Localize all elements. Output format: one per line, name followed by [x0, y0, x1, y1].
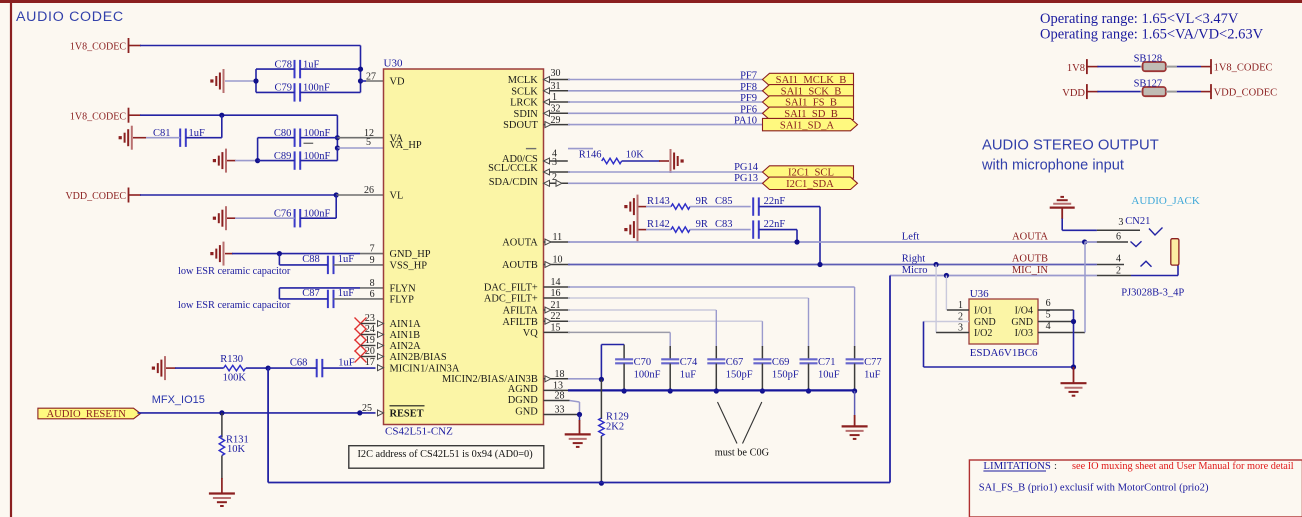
svg-text:PF9: PF9 — [740, 93, 757, 104]
power symbol AGND (C88) — [210, 242, 223, 266]
svg-text:26: 26 — [364, 185, 374, 196]
label Micro — [902, 265, 928, 276]
net flag AUDIO_RESETN — [38, 408, 141, 420]
svg-text:SCL/CCLK: SCL/CCLK — [488, 163, 538, 174]
svg-text:VQ: VQ — [523, 328, 539, 339]
junction Micro-U36 — [944, 273, 949, 278]
svg-text:C87: C87 — [302, 288, 320, 299]
label Right — [902, 253, 925, 264]
junction AOUTA-CN21 — [1082, 239, 1087, 244]
capacitor C79 — [256, 83, 361, 102]
refdes U36 — [970, 288, 989, 300]
svg-text:I/O2: I/O2 — [974, 328, 992, 339]
wire Micro — [890, 276, 1097, 483]
U36 pin6 stub — [1038, 298, 1074, 310]
connector CN21 pin4 — [1097, 254, 1152, 267]
junction C81 top — [219, 113, 224, 118]
svg-text:Right: Right — [902, 253, 925, 264]
svg-text:25: 25 — [362, 403, 372, 414]
wire AD0/CS pin4 — [544, 158, 568, 164]
svg-text:17: 17 — [365, 357, 375, 368]
svg-text:1V8: 1V8 — [1067, 63, 1085, 74]
capacitor C71 — [800, 298, 840, 391]
net flag SAI1_FS_B — [763, 96, 854, 109]
wire AD0 overbar stub — [568, 148, 593, 150]
junction RESET pin — [357, 410, 362, 415]
svg-text:Left: Left — [902, 231, 920, 242]
jack barrel CN21 — [1171, 239, 1179, 265]
junction C68 left — [266, 366, 271, 371]
svg-text:I/O4: I/O4 — [1015, 306, 1033, 317]
svg-text:1V8_CODEC: 1V8_CODEC — [70, 111, 126, 122]
wire AFILTA pin21 — [544, 307, 717, 313]
svg-text:3: 3 — [552, 157, 557, 168]
svg-text:SAI_FS_B (prio1) exclusif with: SAI_FS_B (prio1) exclusif with MotorCont… — [979, 483, 1209, 494]
junction VD pin27 — [358, 78, 363, 83]
svg-text:LRCK: LRCK — [510, 98, 538, 109]
power port 1V8_CODEC (VA) — [70, 108, 129, 123]
U36 pin4 stub — [1038, 321, 1085, 332]
wire U36 pin1 to Micro — [945, 276, 947, 311]
wire MICIN2/BIAS pin18 — [544, 376, 602, 382]
title AUDIO CODEC — [16, 9, 124, 25]
U30 left pin names — [390, 77, 460, 420]
no-connect X AIN1B — [355, 329, 376, 341]
svg-text:6: 6 — [1116, 231, 1121, 242]
junction DGND/GND — [577, 412, 582, 417]
note must be C0G — [715, 448, 770, 459]
svg-text:1V8_CODEC: 1V8_CODEC — [70, 42, 126, 53]
power port 1V8_CODEC (top) — [70, 38, 129, 53]
connector CN21 pin6 — [1085, 231, 1142, 246]
svg-text:PG13: PG13 — [734, 173, 758, 184]
svg-text:10K: 10K — [626, 149, 645, 160]
no-connect X AIN2B — [355, 351, 376, 363]
wire ADC_FILT+ pin16 — [544, 297, 809, 299]
svg-text:ESDA6V1BC6: ESDA6V1BC6 — [970, 347, 1038, 359]
svg-text:AIN2A: AIN2A — [390, 341, 422, 352]
label PG14 — [734, 162, 759, 173]
junction AOUTB-U36 — [934, 262, 939, 267]
svg-text:AIN1A: AIN1A — [390, 319, 422, 330]
U30 right pin names — [442, 75, 538, 417]
note low ESR 2 — [178, 300, 291, 311]
wire AOUTB — [544, 262, 1097, 268]
junction C69 on AGND bus — [760, 388, 765, 393]
label PF8 — [740, 82, 757, 93]
power symbol AGND (C76) — [213, 206, 226, 230]
capacitor C89 — [258, 148, 338, 170]
svg-text:22nF: 22nF — [764, 219, 786, 230]
power symbol AGND (C89) — [213, 149, 226, 173]
svg-text:20: 20 — [365, 346, 375, 357]
svg-text:PF8: PF8 — [740, 82, 757, 93]
svg-text:I2C1_SDA: I2C1_SDA — [786, 179, 834, 190]
U36 pin2 stub — [924, 311, 970, 322]
resistor R146 — [579, 149, 669, 163]
junction C85-AOUTB — [817, 262, 822, 267]
svg-text:2: 2 — [1116, 265, 1121, 276]
capacitor C80 — [258, 128, 338, 147]
net flag SAI1_SD_A — [763, 118, 858, 131]
svg-text:AFILTA: AFILTA — [503, 306, 539, 317]
svg-text:I/O1: I/O1 — [974, 306, 992, 317]
svg-text:PA10: PA10 — [734, 116, 757, 127]
capacitor C69 — [753, 321, 799, 391]
svg-text:4: 4 — [1046, 321, 1051, 332]
svg-text:VA_HP: VA_HP — [390, 140, 422, 151]
junction U36 pin5/6 — [1071, 319, 1076, 324]
esd diode U36 body — [969, 299, 1038, 344]
svg-text:VDD_CODEC: VDD_CODEC — [65, 191, 126, 202]
svg-text:6: 6 — [370, 289, 375, 300]
svg-text:24: 24 — [365, 324, 375, 335]
svg-text:3: 3 — [1118, 217, 1123, 228]
ground (U30 DGND/GND) — [565, 415, 591, 447]
svg-text:CN21: CN21 — [1125, 216, 1150, 227]
U36 pin1 stub — [947, 300, 969, 311]
svg-text:GND: GND — [1011, 317, 1033, 328]
svg-text:DGND: DGND — [508, 395, 539, 406]
svg-text:R142: R142 — [647, 219, 670, 230]
svg-text:with microphone input: with microphone input — [981, 158, 1124, 174]
junction C67 on AGND bus — [714, 388, 719, 393]
wire 1V8_CODEC to U30 VD — [129, 46, 361, 93]
svg-text:AUDIO_JACK: AUDIO_JACK — [1131, 195, 1200, 207]
svg-text:Operating range: 1.65<VL<3.47V: Operating range: 1.65<VL<3.47V — [1040, 11, 1239, 27]
svg-text:VSS_HP: VSS_HP — [390, 261, 428, 272]
net flag I2C1_SCL — [763, 166, 854, 179]
svg-text:R130: R130 — [220, 354, 243, 365]
svg-text:LIMITATIONS: LIMITATIONS — [983, 460, 1051, 472]
pin arrow AIN2B — [378, 354, 384, 360]
capacitor C74 — [661, 332, 698, 391]
wire SDOUT to SAI1_SD_A — [544, 122, 763, 128]
svg-text:SB128: SB128 — [1134, 53, 1163, 64]
svg-text:100nF: 100nF — [634, 369, 661, 380]
svg-text:SB127: SB127 — [1134, 78, 1163, 89]
ground (R131) — [209, 494, 235, 507]
U36 pin5 stub — [1038, 310, 1074, 322]
wire VL stub — [336, 194, 383, 196]
U36 pin names — [974, 306, 1033, 340]
svg-text:19: 19 — [365, 335, 375, 346]
junction C78/C79 left — [253, 78, 258, 83]
svg-text:GND: GND — [515, 406, 538, 417]
connector CN21 pin3 — [1097, 228, 1163, 236]
value ESDA6V1BC6 — [970, 347, 1038, 359]
label PF7 — [740, 71, 757, 82]
svg-text:AOUTA: AOUTA — [1012, 231, 1048, 242]
junction MICBIAS — [599, 377, 604, 382]
solder bridge SB128 — [1067, 53, 1273, 74]
ground (jack sleeve) — [1050, 197, 1097, 230]
junction R129 on MIC rail — [599, 481, 604, 486]
note must be C0G lines — [718, 402, 762, 444]
label PA10 — [734, 116, 757, 127]
pin arrow AIN1A — [378, 321, 384, 327]
svg-text:5: 5 — [366, 137, 371, 148]
wire power to C89 — [227, 160, 258, 162]
svg-text:9: 9 — [370, 255, 375, 266]
value CS42L51-CNZ — [385, 426, 453, 438]
note low ESR 1 — [178, 266, 291, 277]
svg-text:AUDIO STEREO OUTPUT: AUDIO STEREO OUTPUT — [982, 138, 1159, 154]
svg-text:SDA/CDIN: SDA/CDIN — [489, 177, 539, 188]
svg-text:VDD_CODEC: VDD_CODEC — [1214, 87, 1278, 98]
svg-text:PJ3028B-3_4P: PJ3028B-3_4P — [1121, 288, 1184, 299]
subtitle with microphone input — [981, 158, 1124, 174]
capacitor C76 — [227, 195, 336, 227]
net flag SAI1_SD_B — [763, 107, 854, 120]
svg-text:1uF: 1uF — [338, 288, 355, 299]
junction VA_HP pin5 — [335, 145, 340, 150]
label MIC_IN — [1012, 265, 1049, 276]
wire SCLK to SAI1_SCK_B — [544, 88, 763, 94]
svg-text:C74: C74 — [680, 357, 698, 368]
resistor R131 — [219, 413, 249, 493]
svg-text:5: 5 — [1046, 310, 1051, 321]
svg-text:SDIN: SDIN — [514, 109, 539, 120]
svg-text:AOUTB: AOUTB — [1012, 253, 1048, 264]
wire AFILTB pin22 — [544, 318, 763, 324]
op-amp U30 body — [384, 69, 544, 425]
svg-text:C83: C83 — [715, 219, 733, 230]
svg-text:C71: C71 — [818, 357, 836, 368]
no-connect X AIN1A — [355, 318, 376, 330]
svg-text:100K: 100K — [223, 373, 247, 384]
label PF9 — [740, 93, 757, 104]
wire power to C78/C79 junction — [225, 69, 256, 92]
svg-text:C85: C85 — [715, 196, 733, 207]
label AOUTA — [1012, 231, 1048, 242]
pin arrow RESET — [378, 410, 384, 416]
capacitor C87 — [279, 288, 383, 308]
power port VDD_CODEC — [65, 188, 128, 203]
wire GND_HP — [225, 253, 384, 255]
svg-text:22nF: 22nF — [764, 196, 786, 207]
power symbol (R146) — [671, 149, 684, 173]
svg-text:7: 7 — [370, 244, 375, 255]
wire SDIN to SAI1_SD_B — [544, 110, 763, 116]
U30 left pin numbers — [362, 72, 376, 414]
junction VA pin12 — [335, 135, 340, 140]
svg-text:10K: 10K — [227, 444, 246, 455]
wire C70 hook to MICBIAS — [601, 345, 624, 380]
svg-text:GND: GND — [974, 317, 996, 328]
svg-text:6: 6 — [1046, 298, 1051, 309]
junction C77 on AGND bus — [852, 388, 857, 393]
svg-text:C69: C69 — [772, 357, 790, 368]
note I2C address box — [349, 446, 544, 469]
svg-text:C70: C70 — [634, 357, 652, 368]
resistor R143 — [639, 196, 751, 209]
note LIMITATIONS — [983, 460, 1293, 472]
svg-text:low ESR ceramic capacitor: low ESR ceramic capacitor — [178, 266, 291, 277]
junction VL pin26 — [334, 192, 339, 197]
capacitor C70 — [615, 345, 661, 392]
svg-text:VL: VL — [390, 191, 404, 202]
power symbol (R130) — [152, 356, 165, 380]
junction C74 on AGND bus — [668, 388, 673, 393]
svg-text:4: 4 — [1116, 254, 1121, 265]
capacitor C67 — [707, 310, 753, 391]
wire GND pin33 — [544, 414, 580, 416]
connector CN21 pin2 — [1097, 265, 1178, 276]
power symbol (R143) — [624, 195, 637, 219]
svg-text:30: 30 — [551, 68, 561, 79]
svg-text:RESET: RESET — [390, 409, 424, 420]
wire FLYN — [279, 287, 383, 289]
svg-text:9R: 9R — [696, 196, 708, 207]
svg-text:1uF: 1uF — [338, 357, 355, 368]
svg-text:SCLK: SCLK — [511, 86, 538, 97]
svg-text:MFX_IO15: MFX_IO15 — [152, 394, 205, 406]
svg-text:C68: C68 — [290, 357, 308, 368]
wire DAC_FILT+ pin14 — [544, 286, 855, 288]
svg-text:VD: VD — [390, 77, 406, 88]
svg-text:PF7: PF7 — [740, 71, 757, 82]
wire DGND pin28 — [544, 401, 580, 415]
wire AUDIO_RESETN — [138, 412, 376, 414]
capacitor C83 — [715, 219, 797, 242]
svg-text:Micro: Micro — [902, 265, 928, 276]
svg-text:2K2: 2K2 — [606, 422, 624, 433]
svg-text:1uF: 1uF — [680, 369, 697, 380]
svg-text:AIN1B: AIN1B — [390, 330, 421, 341]
svg-text:must be C0G: must be C0G — [715, 448, 770, 459]
capacitor C85 — [715, 196, 820, 264]
ground (AGND bus) — [842, 391, 868, 439]
wire VA stub — [337, 137, 383, 139]
pin arrow AIN1B — [378, 332, 384, 338]
svg-text:1V8_CODEC: 1V8_CODEC — [1214, 62, 1273, 73]
svg-text:C77: C77 — [864, 357, 882, 368]
wire 1V8_CODEC VA rail — [129, 115, 338, 148]
svg-text:I2C address of CS42L51 is 0x94: I2C address of CS42L51 is 0x94 (AD0=0) — [358, 449, 533, 460]
net flag SAI1_MCLK_B — [763, 73, 854, 86]
wire U36 pins5/6 down — [1073, 310, 1075, 367]
note operating range VL — [1040, 11, 1239, 27]
svg-text:10uF: 10uF — [818, 369, 840, 380]
capacitor C68 — [268, 357, 375, 377]
wire MIC rail — [268, 482, 890, 484]
junction C78 right — [358, 67, 363, 72]
wire VQ pin15 — [544, 331, 671, 333]
wire MCLK to SAI1_MCLK_B — [544, 77, 763, 83]
wire AOUTA — [544, 239, 1097, 245]
U30 right pin numbers — [551, 68, 565, 416]
svg-text:VDD: VDD — [1062, 88, 1085, 99]
svg-text:I/O3: I/O3 — [1015, 328, 1033, 339]
note LIMITATIONS box — [969, 460, 1302, 517]
junction C83-AOUTA — [794, 239, 799, 244]
ground (U36) — [1061, 367, 1087, 396]
wire VD stub — [361, 80, 384, 82]
svg-text:MCLK: MCLK — [508, 75, 539, 86]
svg-text:150pF: 150pF — [726, 369, 753, 380]
svg-text:9R: 9R — [696, 219, 708, 230]
svg-text:U36: U36 — [970, 288, 989, 300]
wire U36 GND run — [924, 322, 1074, 368]
refdes U30 — [384, 58, 403, 70]
svg-text:C67: C67 — [726, 357, 744, 368]
svg-text:low ESR ceramic capacitor: low ESR ceramic capacitor — [178, 300, 291, 311]
svg-text:23: 23 — [365, 313, 375, 324]
wire U36 pin4 to AOUTA — [1084, 242, 1086, 333]
value PJ3028B-3_4P — [1121, 288, 1184, 299]
junction U36 gnd — [1071, 364, 1076, 369]
svg-text:1uF: 1uF — [338, 254, 355, 265]
capacitor C78 — [256, 59, 361, 78]
no-connect X AIN2A — [355, 340, 376, 352]
svg-text:R146: R146 — [579, 149, 602, 160]
wire VDD_CODEC to VL — [129, 194, 337, 196]
svg-text:ADC_FILT+: ADC_FILT+ — [484, 294, 538, 305]
svg-text:1: 1 — [958, 300, 963, 311]
power symbol AVDD (C78/C79) — [210, 69, 223, 93]
wire SDA to I2C1_SDA — [544, 180, 763, 186]
wire VA_HP stub — [337, 147, 383, 149]
resistor R130 — [166, 354, 268, 384]
label Left — [902, 231, 920, 242]
U36 pin3 stub — [936, 323, 969, 334]
resistor R142 — [639, 219, 751, 232]
wire U36 pin3 to AOUTB — [935, 265, 937, 333]
junction R131 top — [219, 410, 224, 415]
svg-text:AIN2B/BIAS: AIN2B/BIAS — [390, 352, 447, 363]
svg-text:Operating range: 1.65<VA/VD<2.: Operating range: 1.65<VA/VD<2.63V — [1040, 27, 1264, 43]
svg-text:FLYP: FLYP — [390, 295, 415, 306]
svg-text:SAI1_SD_A: SAI1_SD_A — [780, 120, 835, 131]
solder bridge SB127 — [1062, 78, 1277, 99]
refdes CN21 — [1118, 216, 1150, 228]
svg-text:2: 2 — [958, 311, 963, 322]
svg-text:AUDIO CODEC: AUDIO CODEC — [16, 9, 124, 25]
svg-text:MIC_IN: MIC_IN — [1012, 265, 1049, 276]
svg-text:8: 8 — [370, 278, 375, 289]
svg-text:AFILTB: AFILTB — [502, 317, 537, 328]
capacitor C81 — [133, 115, 222, 147]
svg-text:PG14: PG14 — [734, 162, 759, 173]
svg-text::: : — [1054, 460, 1057, 472]
junction C89 left — [255, 158, 260, 163]
svg-text:150pF: 150pF — [772, 369, 799, 380]
svg-text:AOUTA: AOUTA — [502, 238, 538, 249]
svg-text:27: 27 — [366, 72, 376, 83]
svg-text:AOUTB: AOUTB — [502, 260, 538, 271]
label AUDIO_JACK — [1131, 195, 1200, 207]
capacitor C77 — [846, 287, 882, 391]
svg-text:FLYN: FLYN — [390, 284, 417, 295]
svg-text:GND_HP: GND_HP — [390, 249, 431, 260]
svg-text:see IO muxing sheet and User M: see IO muxing sheet and User Manual for … — [1072, 461, 1294, 472]
wire AGND bus pin13 — [544, 389, 855, 391]
note operating range VA/VD — [1040, 27, 1264, 43]
wire C80/C89 loop — [257, 138, 259, 161]
label PF6 — [740, 104, 757, 115]
svg-text:R143: R143 — [647, 196, 670, 207]
svg-text:C88: C88 — [302, 254, 320, 265]
capacitor C88 — [279, 254, 383, 275]
pin arrow MICIN1 — [378, 365, 384, 371]
wire LRCK to SAI1_FS_B — [544, 99, 763, 105]
svg-text:CS42L51-CNZ: CS42L51-CNZ — [385, 426, 453, 438]
power symbol (R142) — [624, 218, 637, 242]
svg-text:AUDIO_RESETN: AUDIO_RESETN — [46, 409, 126, 420]
wire C87 loop — [278, 288, 280, 299]
svg-text:U30: U30 — [384, 58, 403, 70]
